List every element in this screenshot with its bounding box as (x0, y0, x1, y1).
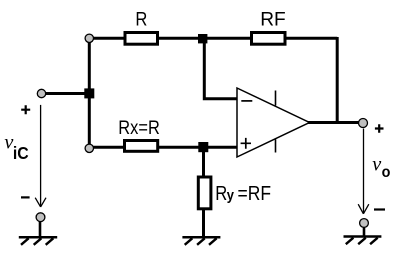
resistor Ry (198, 177, 211, 209)
wire left vertical input bus (88, 38, 91, 148)
ground middle (182, 237, 220, 245)
terminal input lower (circle) (85, 144, 93, 152)
output arrow vo (358, 129, 369, 214)
resistor Rx (125, 141, 158, 152)
node junction noninverting (square) (198, 142, 208, 152)
node junction top (square) (198, 34, 207, 43)
terminal input top (circle) (85, 34, 93, 42)
svg-text:R: R (215, 183, 227, 205)
power pin bottom (275, 139, 277, 152)
resistor R (125, 33, 158, 45)
ground right (344, 237, 382, 245)
wire output terminal to ground (363, 225, 366, 237)
terminal output bottom (circle) (360, 219, 369, 228)
svg-text:o: o (382, 164, 391, 181)
plus polarity left (21, 105, 30, 114)
source arrow viC (35, 105, 46, 207)
op-amp U1 (237, 88, 310, 157)
wire source terminal to left node (42, 92, 90, 95)
wire op-amp output to terminal (307, 121, 363, 124)
svg-text:v: v (372, 154, 381, 176)
terminal source bottom (circle) (36, 213, 45, 222)
svg-text:R: R (135, 9, 147, 31)
minus polarity output (374, 208, 385, 210)
label vo (372, 154, 390, 181)
node junction left (square) (84, 88, 94, 98)
label viC (4, 132, 29, 163)
plus polarity output (375, 124, 384, 133)
ground left (19, 237, 57, 245)
power pin top (275, 91, 277, 106)
wire left terminal to ground (39, 219, 42, 237)
resistor RF (252, 33, 286, 45)
wire right vertical from RF corner down to output (336, 37, 339, 123)
svg-text:iC: iC (13, 143, 29, 163)
svg-text:Rx=R: Rx=R (118, 118, 160, 139)
terminal output (circle) (359, 119, 368, 128)
minus polarity left (21, 196, 30, 198)
wire node to Ry top (202, 150, 205, 177)
svg-text:RF: RF (260, 9, 286, 31)
plus input sign (241, 138, 251, 149)
svg-text:=RF: =RF (238, 183, 272, 205)
wire top row from input node through R to RF and corner (89, 37, 337, 40)
wire Ry bottom to ground (202, 209, 205, 237)
wire from top node down to inverting input (204, 40, 237, 99)
wire noninverting row through Rx to op-amp (89, 146, 237, 149)
label Ry=RF (215, 183, 271, 205)
terminal source top (circle) (37, 89, 45, 97)
minus input sign (241, 100, 252, 102)
svg-text:y: y (227, 187, 235, 204)
